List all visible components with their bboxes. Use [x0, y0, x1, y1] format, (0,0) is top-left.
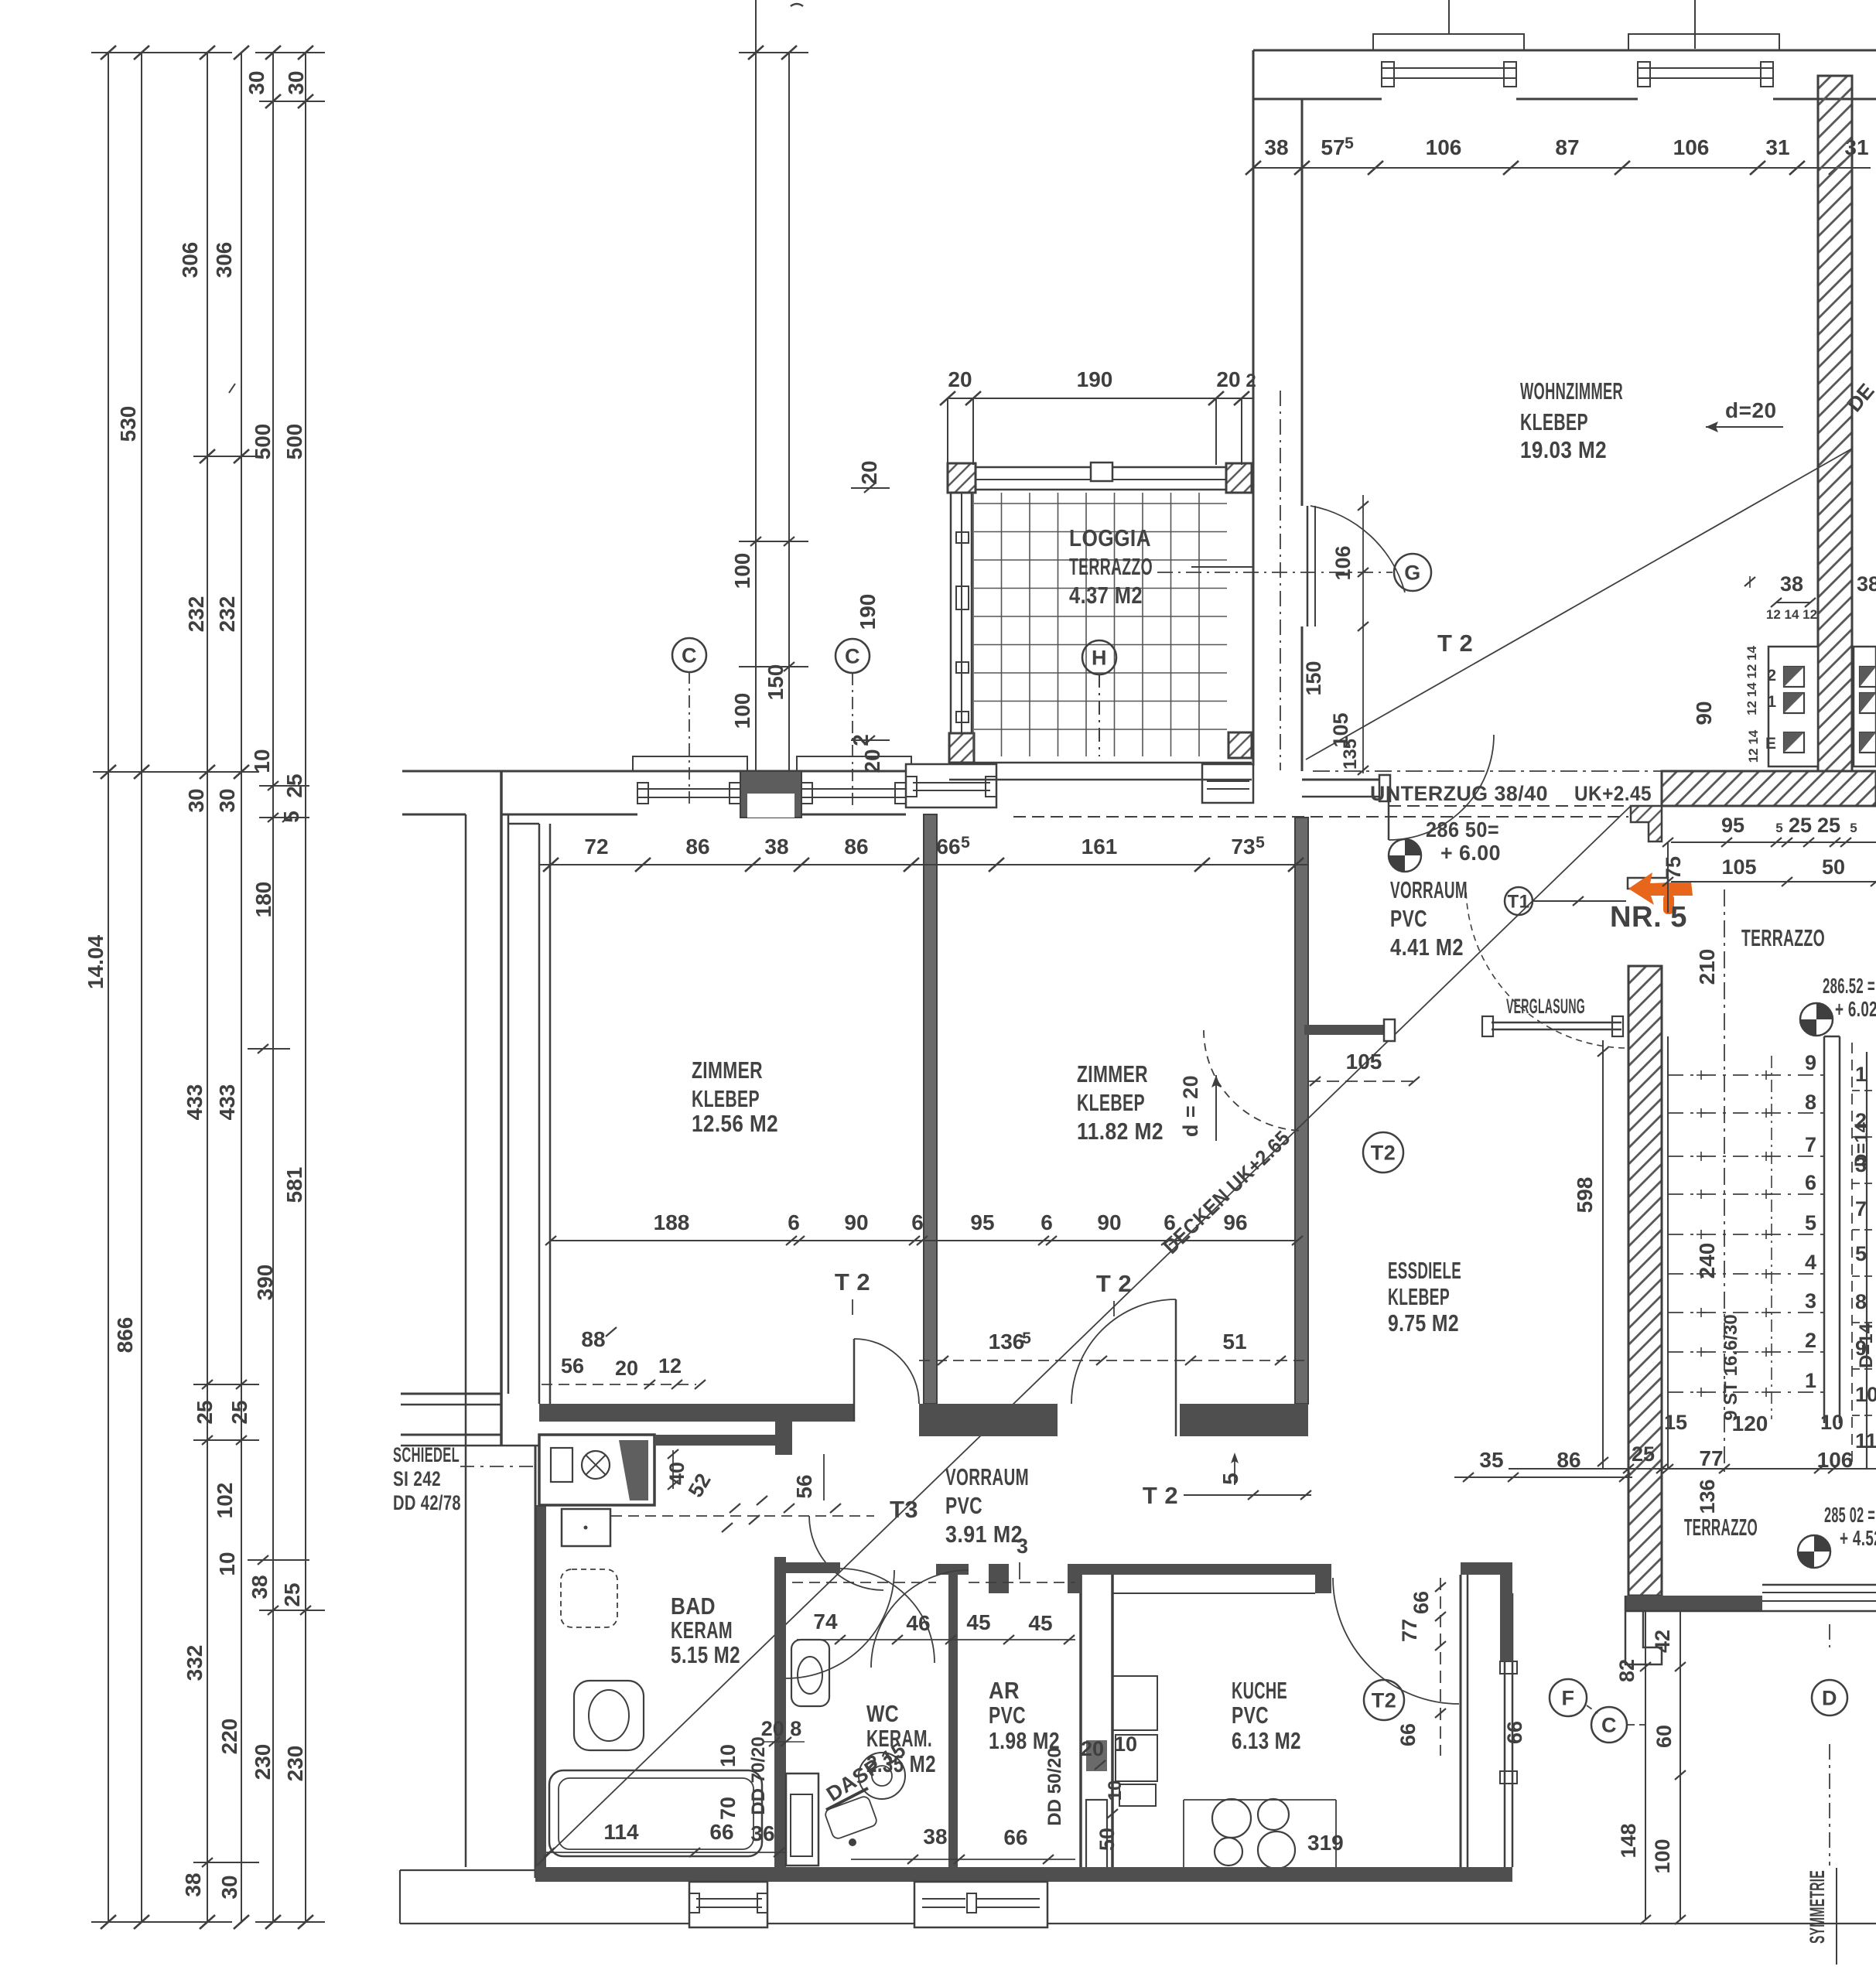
svg-text:10: 10 — [1114, 1732, 1137, 1756]
svg-text:8: 8 — [1805, 1091, 1816, 1114]
door kueche arc — [1333, 1578, 1459, 1704]
svg-text:74: 74 — [813, 1610, 838, 1633]
node axis bubble C — [672, 638, 706, 672]
svg-text:1: 1 — [1767, 693, 1776, 711]
bottom right dim verticals — [1645, 1611, 1646, 1920]
svg-text:598: 598 — [1573, 1177, 1597, 1214]
svg-text:70: 70 — [716, 1797, 740, 1820]
kitchen counter around stove — [1183, 1800, 1184, 1867]
svg-text:d=20: d=20 — [1725, 398, 1777, 422]
svg-text:86: 86 — [844, 835, 868, 859]
svg-text:12 14 12: 12 14 12 — [1766, 607, 1817, 622]
svg-text:TERRAZZO: TERRAZZO — [1069, 553, 1153, 580]
svg-text:286.52 =: 286.52 = — [1823, 974, 1875, 998]
svg-text:190: 190 — [856, 594, 880, 630]
wall west-wing north outer line — [402, 770, 950, 773]
svg-text:25: 25 — [1817, 814, 1840, 837]
svg-text:30: 30 — [244, 70, 268, 94]
balcony door bay lines — [1504, 1593, 1506, 1867]
svg-text:25: 25 — [1632, 1442, 1655, 1466]
svg-text:NR. 5: NR. 5 — [1610, 901, 1687, 934]
svg-text:T3: T3 — [890, 1496, 918, 1523]
kueche north wall — [1068, 1564, 1331, 1575]
loggia corner post bottom-right (hatched) — [1228, 732, 1252, 758]
dashed line vorraum — [611, 1515, 874, 1517]
unterzug dashed line lower — [1013, 816, 1628, 818]
svg-text:106: 106 — [1426, 135, 1462, 159]
node axis bubble G — [1394, 554, 1431, 591]
svg-text:38: 38 — [1780, 572, 1803, 596]
svg-text:KLEBEP: KLEBEP — [1520, 408, 1588, 435]
left dimension chain bottom tick row — [91, 1921, 232, 1923]
svg-text:220: 220 — [217, 1719, 241, 1755]
svg-text:UNTERZUG 38/40: UNTERZUG 38/40 — [1370, 782, 1548, 805]
svg-text:7: 7 — [1805, 1133, 1816, 1156]
svg-text:6: 6 — [788, 1210, 800, 1234]
svg-text:+ 4.52: + 4.52 — [1840, 1526, 1876, 1550]
hatched band top of stair landing — [1662, 771, 1876, 806]
svg-text:50: 50 — [1095, 1828, 1119, 1851]
wall vorraum north (east of chimney) — [654, 1435, 788, 1446]
svg-text:5.15 M2: 5.15 M2 — [671, 1641, 740, 1668]
svg-text:38: 38 — [248, 1575, 272, 1599]
faint diagonal tick top left area — [229, 384, 235, 393]
duct DD70/20 recess — [786, 1773, 818, 1866]
svg-text:C: C — [845, 645, 860, 668]
svg-text:232: 232 — [215, 596, 239, 633]
svg-text:75: 75 — [1662, 856, 1685, 879]
svg-text:180: 180 — [251, 882, 275, 918]
wall pier between windows west wing — [740, 771, 801, 818]
svg-text:C: C — [1601, 1714, 1617, 1737]
svg-text:LOGGIA: LOGGIA — [1069, 524, 1151, 551]
axis C left leader — [689, 671, 690, 806]
svg-text:9: 9 — [1805, 1051, 1816, 1074]
symmetry axis — [1829, 1624, 1830, 1647]
svg-text:30: 30 — [184, 788, 208, 812]
svg-text:30: 30 — [215, 788, 239, 812]
svg-text:25: 25 — [1789, 814, 1812, 837]
svg-text:66: 66 — [709, 1820, 733, 1844]
svg-text:5: 5 — [961, 834, 970, 852]
svg-text:150: 150 — [764, 664, 788, 701]
svg-text:100: 100 — [730, 693, 754, 729]
svg-text:T 2: T 2 — [1437, 630, 1473, 657]
svg-text:56: 56 — [792, 1474, 816, 1498]
svg-text:1: 1 — [1855, 1063, 1867, 1086]
svg-text:BAD: BAD — [671, 1593, 716, 1620]
left chain intermediate ticks — [259, 101, 325, 102]
svg-text:500: 500 — [282, 424, 306, 460]
door T2 wohnzimmer-vorraum leaf — [1388, 797, 1390, 840]
unterzug dashed line upper — [1389, 805, 1628, 807]
svg-text:6: 6 — [1041, 1210, 1053, 1234]
svg-text:46: 46 — [906, 1611, 930, 1635]
loggia top parapet centre block — [1091, 463, 1112, 481]
svg-text:95: 95 — [970, 1210, 994, 1234]
zimmer interior dim row (188 6 90 ...) — [551, 1240, 1297, 1241]
svg-text:66: 66 — [1396, 1723, 1420, 1746]
svg-text:10: 10 — [215, 1552, 239, 1575]
svg-text:161: 161 — [1082, 835, 1118, 859]
svg-text:3: 3 — [1805, 1289, 1816, 1313]
axis G horizontal dash-dot — [1157, 572, 1392, 573]
svg-text:10: 10 — [250, 749, 274, 773]
svg-text:1: 1 — [1805, 1369, 1816, 1392]
svg-text:C: C — [682, 644, 697, 667]
window sill west-wing window 1 — [637, 788, 740, 790]
schiedel leader dashes — [460, 1466, 539, 1467]
wohnzimmer window 2 sill — [1638, 67, 1773, 69]
terrace wall left jog — [1625, 1596, 1662, 1664]
chimney schiedel block — [539, 1435, 654, 1505]
svg-text:5: 5 — [1850, 821, 1857, 835]
west wing top dim row (72 86 38 86...) — [539, 864, 1307, 865]
top right window centrelines — [1448, 0, 1450, 34]
shaft cabinet right of hatched wall (cut by edge) — [1854, 647, 1876, 766]
wall wohnzimmer north outer — [1253, 49, 1876, 52]
svg-text:10: 10 — [716, 1744, 740, 1767]
door G swing arc — [1310, 506, 1405, 592]
svg-text:66: 66 — [1410, 1591, 1433, 1614]
svg-text:6: 6 — [1805, 1171, 1816, 1194]
svg-text:T2: T2 — [1371, 1142, 1396, 1165]
svg-text:87: 87 — [1555, 135, 1579, 159]
wall bad-wc — [774, 1557, 786, 1873]
svg-text:60: 60 — [1652, 1725, 1676, 1748]
svg-text:136: 136 — [989, 1330, 1025, 1354]
svg-text:57: 57 — [1321, 135, 1345, 159]
svg-text:9.75 M2: 9.75 M2 — [1388, 1309, 1459, 1336]
kitchen west door cap — [989, 1564, 1009, 1593]
window bay under loggia left — [906, 764, 996, 807]
kitchen counter rects — [1112, 1676, 1157, 1730]
bottom outer line left vertical join — [399, 1870, 401, 1924]
right side dim chain y1089 — [1671, 841, 1876, 843]
node axis bubble H — [1082, 640, 1116, 674]
bad wc seat — [574, 1681, 644, 1750]
window bay below bad — [689, 1882, 767, 1927]
sight diagonal wohnzimmer — [1306, 449, 1852, 760]
svg-text:VORRAUM: VORRAUM — [945, 1463, 1029, 1490]
svg-text:50: 50 — [1822, 855, 1845, 879]
tilde mark top — [791, 4, 803, 6]
decken uk+2.65 diagonal line — [537, 806, 1631, 1866]
node axis bubble T2 — [1363, 1132, 1403, 1173]
bad bottom dim row — [546, 1852, 786, 1853]
svg-text:12 14 12 14: 12 14 12 14 — [1744, 646, 1759, 715]
bottom apartment wall — [535, 1867, 1512, 1882]
wall between doors — [919, 1404, 1058, 1436]
svg-text:581: 581 — [282, 1167, 306, 1203]
svg-text:114: 114 — [603, 1820, 639, 1844]
vorraum wall stub to essdiele — [1304, 1025, 1384, 1035]
wall stub left lower — [401, 1434, 501, 1436]
wall outer west edge line — [465, 814, 467, 1867]
wall entry hatched (stair side) — [1628, 966, 1662, 1596]
svg-text:90: 90 — [1692, 701, 1716, 725]
stair mid dash-dot vertical — [1771, 1056, 1772, 1419]
svg-text:210: 210 — [1695, 949, 1719, 985]
svg-text:5: 5 — [1345, 135, 1354, 152]
door ar arc — [871, 1570, 969, 1668]
wall zimmer2 south right part — [1180, 1404, 1308, 1436]
svg-text:PVC: PVC — [989, 1702, 1026, 1729]
svg-text:T2: T2 — [1372, 1689, 1397, 1712]
wohnzimmer window 1 sill — [1382, 67, 1516, 69]
svg-text:45: 45 — [1028, 1611, 1052, 1635]
svg-text:20: 20 — [615, 1357, 638, 1380]
svg-text:UK+2.45: UK+2.45 — [1574, 782, 1652, 805]
svg-text:WOHNZIMMER: WOHNZIMMER — [1520, 377, 1623, 405]
wohnzimmer exterior sill box 1 — [1373, 34, 1524, 50]
svg-text:KLEBEP: KLEBEP — [692, 1085, 760, 1112]
svg-text:38: 38 — [181, 1872, 205, 1896]
svg-text:38: 38 — [1857, 572, 1876, 596]
svg-text:2: 2 — [1246, 370, 1256, 391]
door T2 wohnzimmer-vorraum arc — [1389, 735, 1494, 840]
wall pier step — [775, 1404, 792, 1446]
node axis bubble T2 — [1364, 1680, 1404, 1720]
wohnzimmer top dimension line — [1253, 167, 1871, 169]
stove circles — [1212, 1799, 1251, 1838]
svg-text:5: 5 — [279, 811, 303, 823]
svg-text:5: 5 — [1022, 1330, 1031, 1347]
svg-text:530: 530 — [116, 406, 140, 442]
svg-text:T 2: T 2 — [835, 1268, 870, 1296]
svg-text:20: 20 — [1081, 1737, 1104, 1760]
loggia tile grid — [972, 493, 974, 756]
svg-text:88: 88 — [581, 1327, 605, 1351]
svg-text:106: 106 — [1817, 1448, 1854, 1472]
dashed dim row 1365 / 51 — [919, 1360, 1306, 1361]
svg-text:106: 106 — [1331, 545, 1355, 580]
svg-text:D=14: D=14 — [1851, 1121, 1872, 1167]
svg-text:35: 35 — [1479, 1448, 1503, 1472]
stair bottom dim row — [1509, 1468, 1876, 1470]
door NR5 swing arc (dashed) — [1466, 889, 1625, 1048]
svg-text:77: 77 — [1699, 1446, 1723, 1470]
loggia label leader line — [1191, 566, 1253, 568]
wall stub left upper — [401, 1393, 501, 1395]
svg-text:TERRAZZO: TERRAZZO — [1684, 1514, 1758, 1541]
wall wohnzimmer west double — [1252, 50, 1255, 766]
svg-text:72: 72 — [584, 835, 608, 859]
svg-text:190: 190 — [1077, 367, 1113, 391]
door T3 bad arc — [809, 1516, 883, 1590]
svg-text:20: 20 — [1216, 367, 1240, 391]
node axis bubble C — [1591, 1707, 1627, 1743]
unterzug dash-dot centre — [1313, 770, 1662, 772]
svg-text:+ 6.00: + 6.00 — [1440, 841, 1501, 865]
svg-text:433: 433 — [215, 1084, 239, 1121]
svg-text:12: 12 — [658, 1354, 682, 1377]
svg-text:3: 3 — [1017, 1534, 1029, 1558]
tick cluster vorraum — [730, 1504, 740, 1513]
window bay below wc/ar — [914, 1882, 1047, 1927]
svg-text:2: 2 — [1805, 1329, 1816, 1352]
svg-text:KLEBEP: KLEBEP — [1388, 1283, 1450, 1310]
axis bubble H leader — [1099, 674, 1100, 756]
svg-text:ZIMMER: ZIMMER — [692, 1057, 763, 1084]
svg-text:25: 25 — [282, 773, 306, 797]
loggia left parapet blocks — [956, 532, 969, 543]
door T2 zimmer1 leaf — [853, 1339, 856, 1422]
svg-text:G: G — [1404, 562, 1421, 585]
door G leaf — [1307, 506, 1309, 626]
wohnzimmer exterior sill box 2 — [1628, 34, 1779, 50]
door NR5 leaf — [1628, 878, 1668, 889]
node axis bubble T1 — [1505, 887, 1533, 915]
svg-text:14.04: 14.04 — [84, 935, 108, 989]
svg-text:232: 232 — [184, 596, 208, 633]
svg-text:SYMMETRIE: SYMMETRIE — [1806, 1870, 1829, 1944]
wall west-wing north inner line segments — [402, 814, 466, 816]
kitchen east wall — [1460, 1575, 1462, 1873]
right side dim chain y1140 — [1671, 881, 1876, 882]
bad washbasin dashed — [561, 1569, 617, 1627]
door T2 zimmer2 arc — [1071, 1299, 1176, 1404]
wall zimmer1 south — [539, 1404, 854, 1422]
svg-text:6.13 M2: 6.13 M2 — [1232, 1727, 1301, 1754]
wall zimmer1 west inner double — [538, 824, 541, 1404]
node axis bubble D — [1812, 1680, 1847, 1715]
hatched step at entry door — [1631, 806, 1662, 841]
svg-text:230: 230 — [251, 1744, 275, 1780]
svg-text:DD 70/20: DD 70/20 — [748, 1736, 769, 1814]
svg-text:105: 105 — [1721, 855, 1756, 879]
bottom outer line — [400, 1923, 1876, 1924]
svg-text:25: 25 — [193, 1400, 217, 1424]
svg-text:100: 100 — [1651, 1838, 1674, 1873]
svg-text:332: 332 — [183, 1645, 207, 1681]
svg-text:120: 120 — [1732, 1412, 1768, 1435]
stair tread plus ticks — [1697, 1074, 1706, 1076]
svg-text:25: 25 — [280, 1582, 304, 1606]
svg-text:42: 42 — [1651, 1630, 1674, 1653]
svg-text:12.56 M2: 12.56 M2 — [692, 1110, 778, 1137]
svg-text:12 14: 12 14 — [1746, 729, 1761, 763]
svg-text:30: 30 — [284, 70, 308, 94]
axis C right leader — [852, 673, 853, 806]
stair landing left edge line — [1667, 1036, 1669, 1469]
svg-text:20: 20 — [948, 367, 972, 391]
svg-text:T 2: T 2 — [1096, 1270, 1132, 1297]
loggia top dimension line — [948, 398, 1253, 399]
loggia corner post top-left (hatched) — [948, 463, 976, 493]
wall ar-kueche with duct — [1079, 1575, 1082, 1873]
svg-text:D=14: D=14 — [1856, 1323, 1876, 1368]
svg-text:319: 319 — [1307, 1831, 1344, 1855]
svg-text:ESSDIELE: ESSDIELE — [1388, 1257, 1461, 1284]
svg-text:T 2: T 2 — [1143, 1482, 1178, 1509]
svg-text:5: 5 — [1218, 1473, 1242, 1485]
svg-text:51: 51 — [1222, 1330, 1246, 1354]
svg-text:D: D — [1822, 1687, 1837, 1710]
exterior sill box west-wing window 2 — [797, 756, 911, 771]
svg-text:230: 230 — [283, 1746, 307, 1782]
svg-text:5: 5 — [1256, 834, 1265, 852]
node axis bubble C — [835, 639, 870, 673]
essdiele bottom dim 35 86 — [1454, 1476, 1632, 1478]
terrace wall band — [1625, 1596, 1762, 1611]
dashed lines at wing top — [792, 1582, 936, 1583]
wall wc-ar stem — [948, 1575, 958, 1873]
svg-text:E: E — [1765, 735, 1776, 753]
svg-text:38: 38 — [923, 1825, 947, 1849]
svg-text:8: 8 — [1855, 1290, 1867, 1313]
svg-text:36: 36 — [750, 1821, 774, 1845]
svg-text:286 50=: 286 50= — [1426, 818, 1499, 841]
duct DD50/20 — [1086, 1800, 1107, 1869]
svg-text:136: 136 — [1696, 1479, 1719, 1514]
svg-text:73: 73 — [1231, 835, 1255, 859]
svg-text:+ 6.02: + 6.02 — [1835, 997, 1876, 1021]
svg-text:38: 38 — [1264, 135, 1288, 159]
svg-text:102: 102 — [213, 1483, 237, 1519]
svg-text:20: 20 — [857, 460, 881, 484]
window bay right of loggia — [1202, 764, 1253, 803]
svg-text:VERGLASUNG: VERGLASUNG — [1506, 995, 1585, 1018]
svg-text:95: 95 — [1721, 814, 1744, 837]
loggia floor slab bottom edge — [949, 762, 1252, 764]
door wc arc — [840, 1569, 935, 1663]
verglasung glazing — [1492, 1022, 1621, 1024]
svg-text:500: 500 — [251, 424, 275, 460]
svg-text:KUCHE: KUCHE — [1232, 1677, 1287, 1704]
loggia corner post bottom-left (hatched) — [949, 733, 974, 763]
svg-text:11: 11 — [1855, 1429, 1876, 1453]
svg-text:d = 20: d = 20 — [1179, 1075, 1202, 1137]
stair second flight rails — [1866, 1052, 1867, 1470]
svg-text:19.03 M2: 19.03 M2 — [1520, 436, 1607, 463]
dash-dot stair axis vertical — [1724, 889, 1725, 1473]
wall bad west thick — [535, 1505, 546, 1878]
svg-text:82: 82 — [1615, 1659, 1639, 1682]
svg-text:2: 2 — [1767, 667, 1776, 684]
svg-text:T1: T1 — [1507, 892, 1529, 913]
svg-text:SCHIEDEL: SCHIEDEL — [393, 1443, 460, 1466]
svg-text:KERAM: KERAM — [671, 1616, 733, 1644]
wc washbasin — [859, 1753, 905, 1799]
window sill west-wing window 2 — [801, 788, 906, 790]
svg-text:ZIMMER: ZIMMER — [1077, 1060, 1148, 1087]
chimney dark wedge — [619, 1440, 648, 1500]
svg-text:25: 25 — [227, 1400, 251, 1424]
svg-text:90: 90 — [844, 1210, 868, 1234]
svg-text:866: 866 — [113, 1317, 137, 1354]
svg-text:150: 150 — [1302, 661, 1325, 695]
low wall end block — [1379, 775, 1390, 801]
wall wc-ar T bar — [936, 1564, 969, 1575]
svg-text:3.91 M2: 3.91 M2 — [945, 1521, 1023, 1548]
door ar arc mirror — [786, 1570, 894, 1678]
svg-text:4.41 M2: 4.41 M2 — [1390, 934, 1464, 961]
top centre extension line pair — [755, 0, 757, 770]
stair treads dashed — [1668, 1074, 1824, 1076]
svg-text:135: 135 — [1340, 739, 1361, 770]
loggia left parapet rails — [950, 493, 952, 733]
svg-text:4: 4 — [1805, 1251, 1816, 1274]
chimney lower box — [562, 1509, 610, 1546]
svg-text:20: 20 — [860, 749, 884, 773]
svg-text:100: 100 — [730, 553, 754, 589]
left dimension chain top tick row — [91, 52, 232, 53]
svg-text:AR: AR — [989, 1677, 1020, 1704]
svg-text:433: 433 — [183, 1084, 207, 1121]
axis G dash-dot line — [1280, 391, 1281, 770]
svg-text:DD 42/78: DD 42/78 — [393, 1491, 461, 1514]
